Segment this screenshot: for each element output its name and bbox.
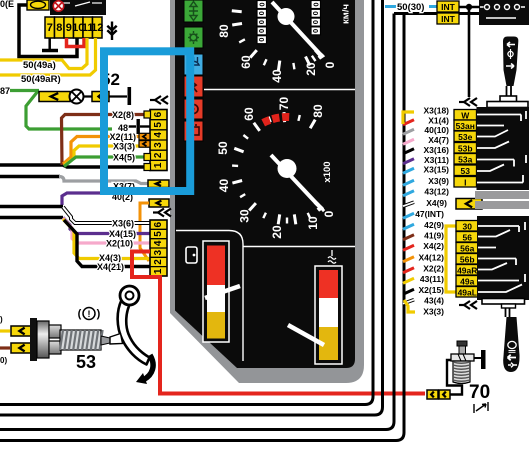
wire green 87 (10, 89, 39, 92)
svg-text:INT: INT (441, 2, 456, 12)
wire stub X3(15) (403, 168, 414, 173)
wire stub 40(10) (403, 129, 414, 134)
relay body top-left (50, 0, 106, 15)
svg-text:0: 0 (323, 61, 337, 68)
connector INT 2 (437, 13, 459, 24)
instrument cluster outer gray body (170, 0, 364, 383)
handbrake press arrow (136, 355, 153, 384)
svg-text:0: 0 (257, 20, 266, 24)
wire stub X1(4) (403, 120, 414, 125)
svg-text:0: 0 (311, 2, 320, 6)
ground symbol (42, 38, 58, 51)
wire stub 47(INT) (403, 213, 414, 218)
wire orange X2(11) (63, 137, 150, 165)
svg-text:30: 30 (463, 221, 473, 231)
connector orange X3(3) (139, 141, 150, 148)
svg-text:80: 80 (311, 104, 325, 118)
wire stub X4(12) (403, 257, 414, 262)
tachometer ticks (232, 112, 324, 224)
wire brown X2(8) (62, 115, 151, 166)
svg-text:INT: INT (441, 14, 456, 24)
svg-text:W: W (461, 110, 470, 120)
body ground fork (107, 22, 116, 41)
svg-text:км/ч: км/ч (341, 4, 352, 24)
connector strip X 1-6 upper (150, 110, 167, 171)
svg-text:41(9): 41(9) (424, 231, 444, 241)
svg-text:20: 20 (270, 225, 284, 239)
svg-text:X3(11): X3(11) (424, 155, 449, 165)
svg-text:12: 12 (91, 22, 103, 34)
stalk stem bottom (506, 308, 510, 317)
svg-text:x100: x100 (322, 161, 333, 182)
svg-text:X3(15): X3(15) (423, 164, 449, 174)
svg-text:0(Е: 0(Е (0, 0, 14, 9)
indicator high beam blue (184, 54, 203, 75)
connector pair lamp row (39, 92, 70, 102)
wire yellow to switch 53 (0, 329, 10, 332)
stalk stem top (507, 86, 512, 96)
svg-text:40: 40 (270, 69, 284, 83)
svg-text:0: 0 (311, 20, 320, 24)
wire white X3(6) (63, 207, 150, 223)
temperature gauge (315, 266, 342, 364)
svg-text:I: I (464, 177, 466, 187)
handbrake lever (110, 286, 150, 365)
wire black to sensor 70 (447, 360, 462, 395)
connector 56b (456, 254, 479, 265)
node 48 terminal (128, 119, 150, 134)
wire stub X4(7) (403, 139, 414, 144)
sensor 70 handle (474, 350, 486, 369)
svg-text:7: 7 (47, 22, 53, 34)
tachometer needle (271, 155, 322, 210)
wire white stub 43(4) (403, 300, 414, 304)
svg-text:X3(3): X3(3) (423, 307, 444, 317)
svg-text:56b: 56b (460, 254, 475, 264)
connector 56a (456, 243, 479, 254)
connector INT 1 (437, 1, 459, 12)
terminal bar (128, 87, 132, 105)
svg-text:8: 8 (56, 22, 62, 34)
pin entry boxes strip1 (144, 111, 151, 118)
sensor 70 body (451, 341, 474, 384)
svg-text:43(4): 43(4) (424, 296, 444, 306)
gauge section boundary line (176, 231, 243, 362)
wire black feeder 2 (0, 175, 60, 179)
svg-text:70: 70 (469, 382, 490, 403)
switch plunger tip (101, 336, 110, 345)
svg-text:50: 50 (216, 141, 230, 155)
svg-text:47(INT): 47(INT) (415, 209, 444, 219)
svg-text:X2(8): X2(8) (112, 110, 134, 120)
wire black INT to box (459, 6, 479, 9)
connector X4(9) arrow (456, 199, 482, 210)
svg-text:60: 60 (242, 107, 256, 121)
svg-text:6: 6 (153, 221, 164, 227)
indicator battery red (184, 121, 203, 141)
connector 53e (454, 131, 477, 142)
svg-text:!: ! (88, 309, 91, 319)
wire red to pin 3 and down to bottom (132, 252, 425, 394)
wire green X4(5) (64, 157, 150, 167)
svg-text:43(12): 43(12) (424, 187, 449, 197)
connector 49aL (456, 287, 479, 298)
indicator oil pressure red (184, 99, 203, 119)
svg-text:X4(7): X4(7) (428, 135, 449, 145)
indicator exterior lights green (184, 27, 203, 48)
temp symbol (328, 250, 336, 263)
speedometer ticks (232, 11, 322, 71)
wire white stub X4(9) (403, 202, 414, 206)
connector 30 (456, 221, 479, 232)
svg-text:1: 1 (153, 268, 164, 274)
svg-text:X4(12): X4(12) (418, 253, 444, 263)
wire red end connector (427, 390, 438, 399)
wire black bundle 4 from left (0, 216, 63, 219)
svg-text:X4(5): X4(5) (113, 153, 135, 163)
wire 50(49aR) yellow (0, 38, 96, 75)
svg-text:4: 4 (153, 240, 164, 246)
connector switch 53 upper (11, 326, 33, 336)
temperature gauge needle (288, 325, 324, 345)
wire black bottom 1 (0, 0, 373, 405)
svg-text:0: 0 (257, 38, 266, 42)
connector strip X 1-6 lower (150, 220, 167, 276)
odometer right (311, 1, 321, 35)
wire stub 41(9) (403, 235, 414, 240)
svg-text:X4(2): X4(2) (423, 241, 444, 251)
gauge section boundary line right (243, 246, 355, 248)
svg-text:4: 4 (153, 132, 164, 138)
light stalk bottom (503, 317, 519, 372)
wire stub X4(2) (403, 245, 414, 250)
chevron right bottom (459, 301, 477, 309)
wire green branch to 48 (26, 91, 112, 129)
wire 50(49a) yellow (0, 38, 87, 69)
switch mount bands (475, 191, 529, 199)
wire orange 40(2) drop (140, 203, 149, 261)
svg-text:53e: 53e (458, 132, 472, 142)
connector 53 (454, 165, 477, 176)
svg-text:3: 3 (153, 142, 164, 148)
svg-text:2: 2 (153, 259, 164, 265)
svg-text:X3(18): X3(18) (423, 106, 449, 116)
column switch unit 1 (477, 107, 529, 190)
junction node (466, 4, 472, 10)
svg-text:49aL: 49aL (458, 287, 477, 297)
svg-text:0: 0 (311, 11, 320, 15)
fuel symbol box (186, 247, 197, 263)
instrument cluster black face (175, 0, 355, 368)
red lamp symbol (53, 1, 63, 11)
wire yellow X3(3) (64, 146, 150, 166)
connector I (454, 177, 477, 188)
connector X3(7) (148, 180, 169, 188)
cluster section divider line (204, 89, 355, 91)
svg-text:2: 2 (153, 152, 164, 158)
fuel gauge needle (205, 286, 240, 298)
wiper stalk top (503, 37, 518, 87)
svg-text:X3(3): X3(3) (113, 142, 135, 152)
indicator warning red 1 (184, 76, 203, 97)
connector 53b (454, 143, 477, 154)
wire black junction down (468, 7, 471, 97)
connector 6 rotated (27, 0, 49, 10)
svg-text:X2(10): X2(10) (106, 239, 133, 249)
chevron right top (459, 98, 477, 106)
svg-text:20: 20 (304, 62, 318, 76)
svg-text:0: 0 (257, 29, 266, 33)
svg-text:42(9): 42(9) (424, 220, 444, 230)
wire brown to switch 53 (0, 346, 10, 349)
wire yellow bus 30 to 49aL (446, 226, 456, 292)
svg-text:80: 80 (217, 24, 231, 38)
speedometer numbers (217, 24, 337, 83)
connector 53a (454, 154, 477, 165)
warning symbol (!) (78, 308, 101, 321)
svg-text:50(49aR): 50(49aR) (21, 74, 61, 85)
switch 53 body (30, 318, 61, 361)
switch mount pedestal top (500, 96, 517, 102)
wire yellow X3(3) bend (404, 300, 415, 312)
connector switch 53 lower (11, 343, 33, 353)
svg-text:56: 56 (463, 232, 473, 242)
connector 53aн (454, 120, 477, 131)
svg-text:X3(9): X3(9) (428, 176, 449, 186)
wire black relay loop (19, 5, 77, 57)
svg-text:5: 5 (153, 231, 164, 237)
svg-text:53: 53 (76, 352, 96, 372)
svg-text:10: 10 (306, 216, 320, 230)
wire stub X3(9) (403, 180, 414, 185)
indicator turn signal green (184, 0, 203, 22)
svg-text:X1(4): X1(4) (428, 116, 449, 126)
svg-text:49aR: 49aR (457, 265, 477, 275)
svg-text:0: 0 (322, 210, 336, 217)
svg-text:53a: 53a (458, 154, 472, 164)
svg-text:0: 0 (311, 29, 320, 33)
column switch unit 2 (477, 216, 529, 300)
svg-text:50(30): 50(30) (397, 2, 424, 13)
wire stub X3(11) (403, 159, 414, 164)
wire to terminal (109, 95, 127, 97)
connector 56 (456, 232, 479, 243)
relay pins 7-12 (45, 17, 103, 38)
wire purple X4(15) (63, 218, 150, 234)
svg-text:X2(2): X2(2) (423, 264, 444, 274)
svg-text:40: 40 (217, 179, 231, 193)
sensor symbol (474, 402, 488, 413)
wire stub X2(2) (403, 268, 414, 273)
speedometer needle (272, 2, 323, 58)
svg-text:70: 70 (277, 97, 291, 111)
svg-text:): ) (97, 308, 101, 320)
svg-text:X4(21): X4(21) (97, 262, 124, 272)
wire red pin9-pin11 (67, 38, 85, 47)
ignition switch box top right (479, 0, 529, 25)
svg-text:43(11): 43(11) (420, 274, 444, 284)
wire black X4(21) (64, 220, 150, 267)
connector 49a (456, 276, 479, 287)
wire black bottom 2 (0, 0, 383, 415)
svg-text:X3(6): X3(6) (112, 219, 134, 229)
wire black stub X2(15) (403, 289, 414, 294)
wire black stub X3(16) (403, 149, 414, 154)
tachometer numbers (216, 97, 336, 239)
lamp symbol 52 (70, 90, 93, 104)
svg-text:30: 30 (238, 209, 252, 223)
wire pink X2(10) (63, 218, 150, 243)
svg-text:): ) (0, 315, 3, 324)
wire stub 43(12) (403, 191, 414, 196)
wire black bundle 1 from left (0, 165, 150, 167)
svg-text:5: 5 (153, 122, 164, 128)
svg-text:0): 0) (0, 356, 7, 365)
svg-text:87: 87 (0, 86, 10, 96)
svg-text:1: 1 (153, 162, 164, 168)
wire stub 43(11) (403, 278, 414, 283)
wire cyan 50(30) (385, 5, 396, 8)
connector orange X2(11) (139, 133, 150, 140)
connector 49aR (456, 265, 479, 276)
wire yellow X3(18) bend (403, 112, 414, 124)
svg-text:6: 6 (153, 111, 164, 117)
svg-text:50(49a): 50(49a) (23, 60, 56, 71)
wire yellow X4(3) (63, 219, 150, 259)
chevron connector mark (150, 96, 168, 104)
wire stub 42(9) (403, 224, 414, 229)
svg-text:0: 0 (257, 2, 266, 6)
blue highlight rectangle (104, 51, 190, 191)
svg-text:X4(15): X4(15) (109, 229, 136, 239)
svg-text:(: ( (78, 308, 82, 320)
connector box right of lamp (92, 92, 109, 102)
wire cyan to INT (429, 5, 437, 8)
svg-text:53b: 53b (458, 143, 473, 153)
svg-text:56a: 56a (460, 243, 474, 253)
wire gray X3(7) (59, 177, 148, 184)
wire black bottom 3 (0, 14, 394, 430)
svg-text:X2(15): X2(15) (418, 285, 444, 295)
wire black bundle 3 from left (0, 205, 63, 208)
connector 40(2) (149, 199, 169, 207)
connector W (454, 110, 477, 121)
svg-text:49a: 49a (460, 276, 474, 286)
wire purple 40(2) (62, 193, 100, 205)
svg-text:53: 53 (461, 166, 471, 176)
switch 53 threaded shaft (60, 330, 103, 350)
svg-text:3: 3 (153, 249, 164, 255)
svg-text:9: 9 (66, 22, 72, 34)
svg-text:0: 0 (257, 11, 266, 15)
tachometer red zone (263, 117, 289, 123)
svg-text:X3(16): X3(16) (423, 145, 449, 155)
svg-text:X2(11): X2(11) (109, 132, 136, 142)
svg-text:X4(9): X4(9) (426, 198, 447, 208)
fuel gauge (203, 241, 229, 342)
chevron connector mark 2 (153, 209, 171, 217)
stalk mount bottom (482, 299, 525, 305)
odometer left (257, 1, 267, 44)
svg-text:40(10): 40(10) (424, 125, 449, 135)
svg-text:53aн: 53aн (456, 121, 475, 131)
